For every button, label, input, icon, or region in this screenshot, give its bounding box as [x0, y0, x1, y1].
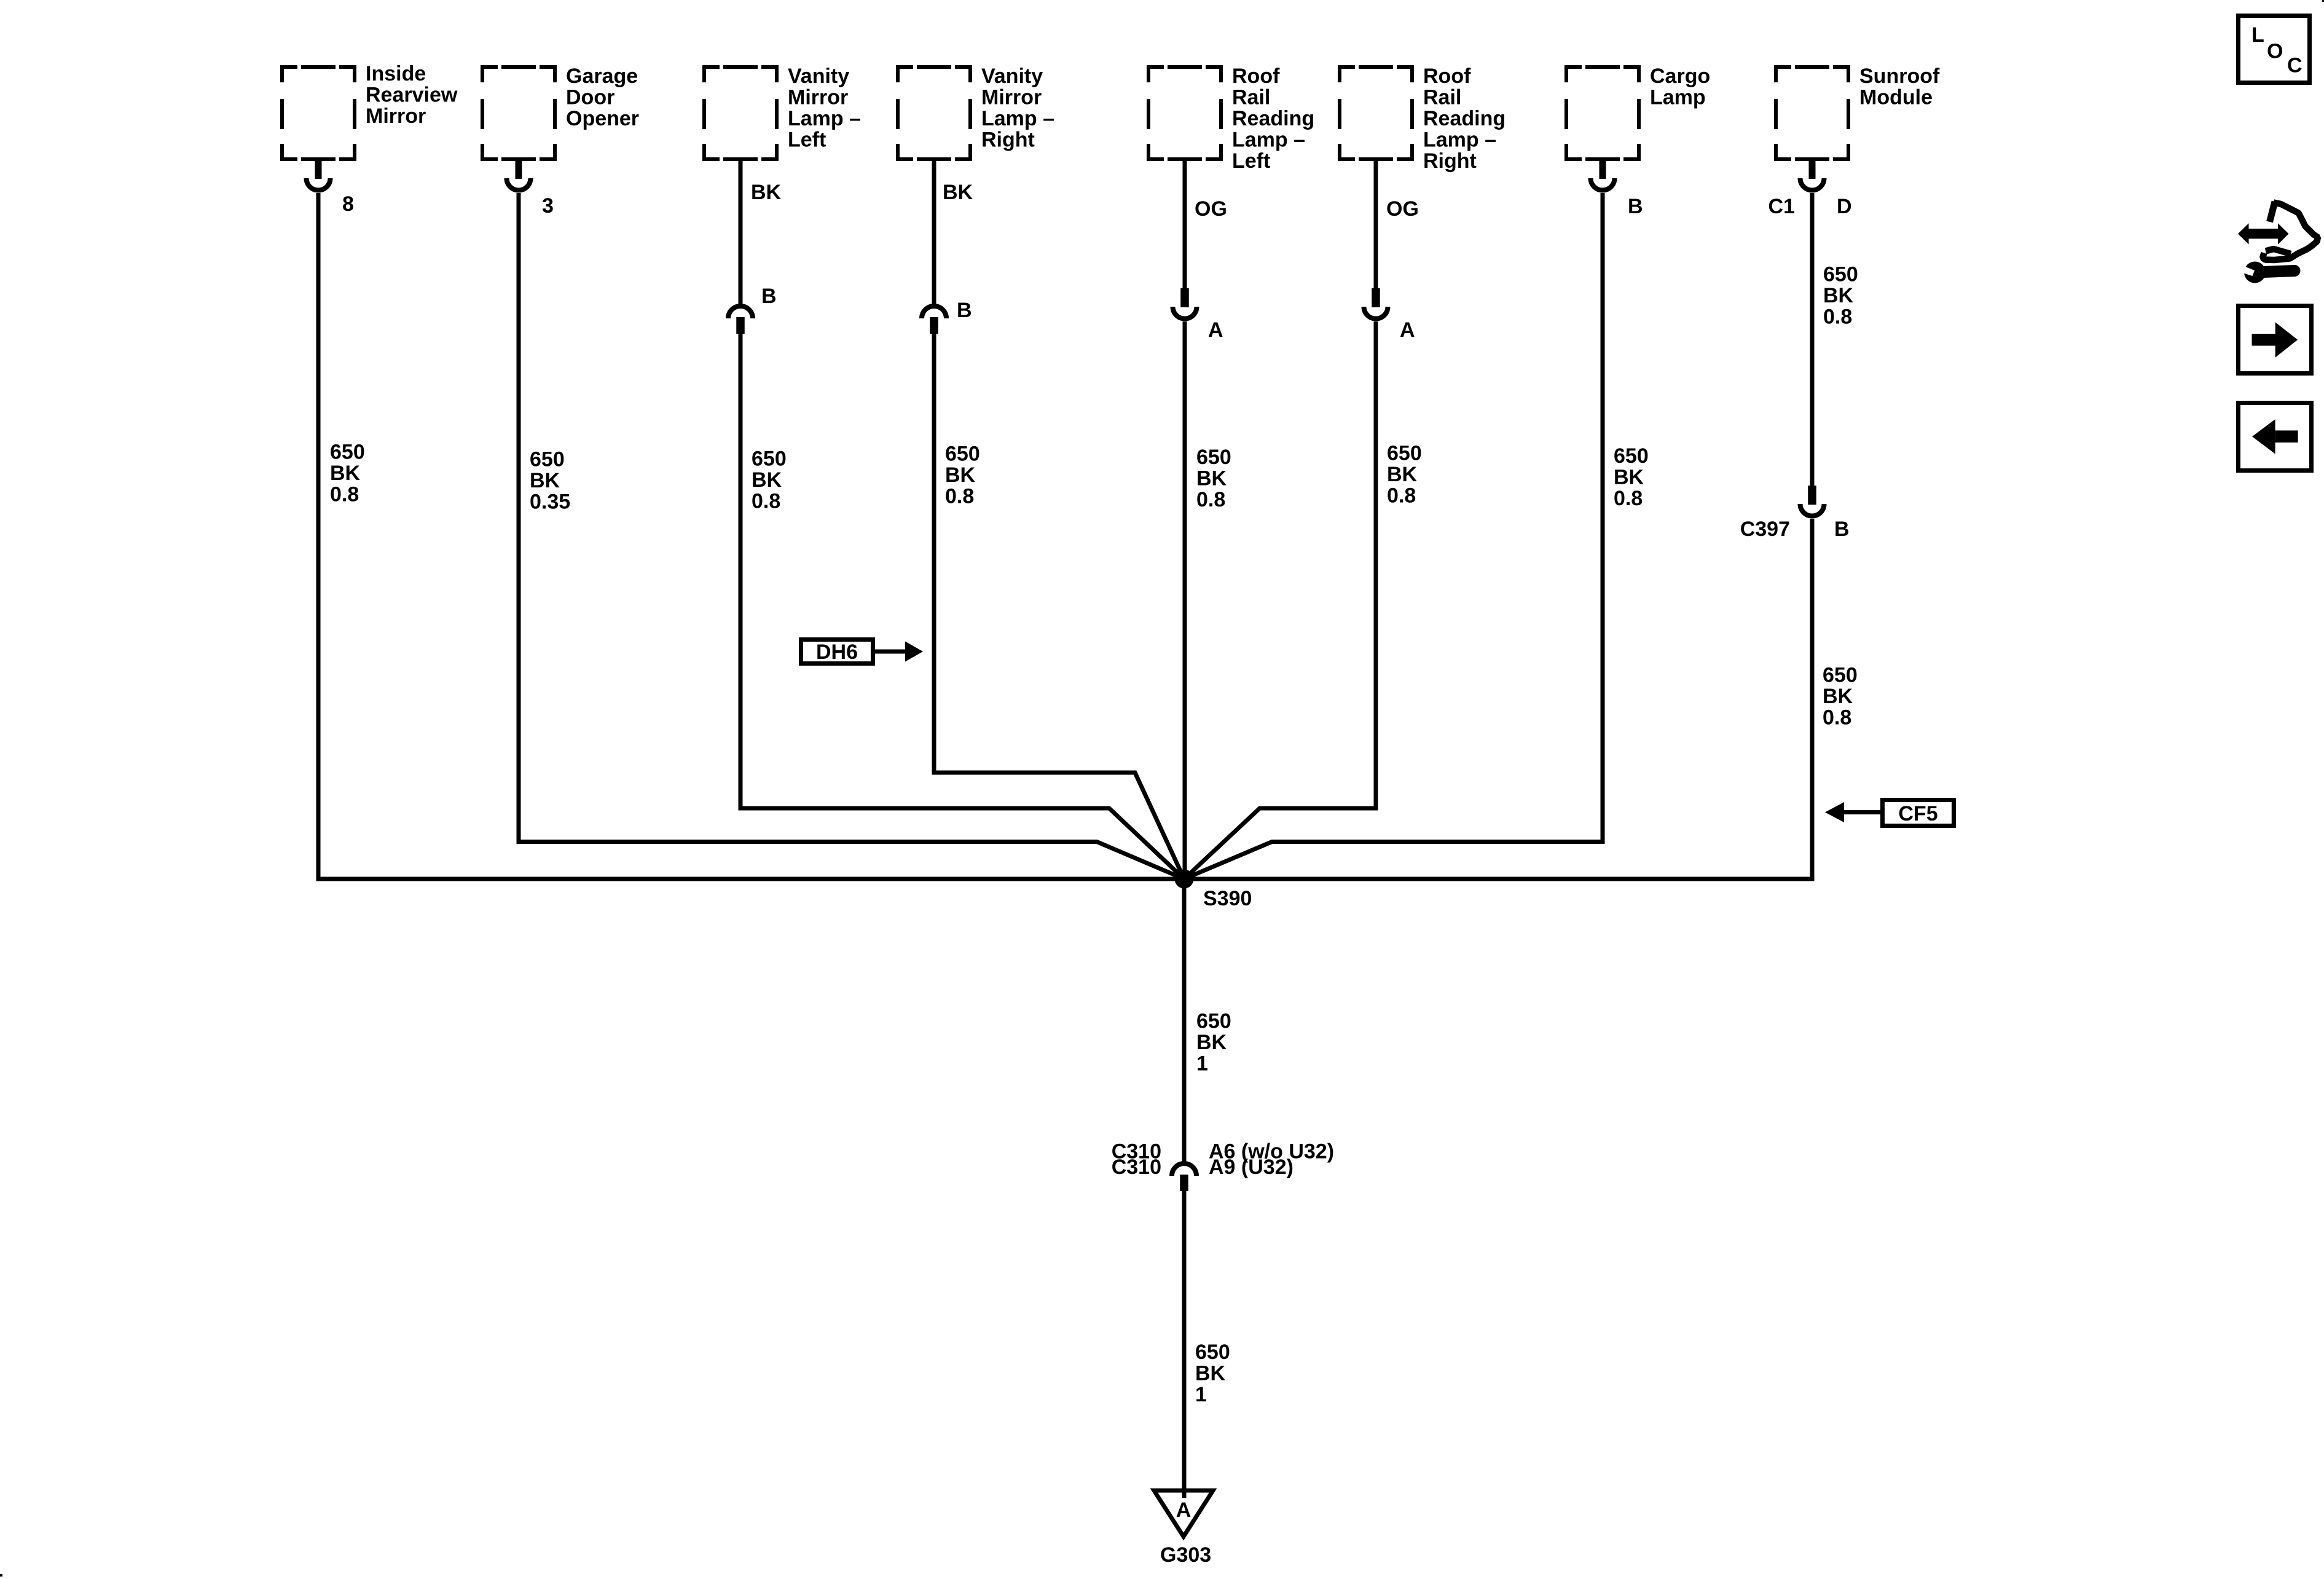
forward navigation icon: [2239, 306, 2312, 374]
svg-text:Vanity: Vanity: [788, 65, 849, 88]
svg-text:BK: BK: [1614, 466, 1644, 489]
svg-text:BK: BK: [945, 463, 976, 487]
svg-text:Lamp –: Lamp –: [981, 107, 1054, 130]
svg-text:B: B: [1834, 518, 1850, 541]
svg-text:A: A: [1176, 1498, 1191, 1522]
svg-text:650: 650: [752, 447, 787, 471]
svg-text:Vanity: Vanity: [981, 65, 1043, 88]
svg-text:650: 650: [1196, 446, 1231, 469]
in-line connector pin A Roof Rail Reading Lamp Right: [1364, 288, 1388, 319]
page mark top right: [2322, 0, 2324, 2]
component box Roof Rail Reading Lamp Left: [1147, 65, 1223, 161]
wire 650 BK 1 to ground: [1182, 1191, 1187, 1498]
wire sunroof lower with corner: [1184, 519, 1812, 879]
svg-text:650: 650: [1823, 263, 1858, 286]
svg-text:DH6: DH6: [816, 640, 858, 664]
svg-text:Lamp: Lamp: [1650, 86, 1706, 109]
svg-text:Right: Right: [981, 128, 1035, 152]
component box Garage Door Opener: [481, 65, 557, 161]
svg-text:BK: BK: [1387, 463, 1418, 486]
svg-text:A: A: [1400, 318, 1415, 342]
svg-text:0.8: 0.8: [1614, 487, 1643, 510]
svg-text:D: D: [1837, 195, 1852, 218]
harness icon jaw stroke: [2266, 249, 2291, 254]
svg-text:CF5: CF5: [1898, 802, 1937, 825]
wire 650 BK roof right to splice: [1184, 321, 1376, 879]
svg-text:C310: C310: [1112, 1156, 1161, 1179]
wire OG from Roof Rail Reading Lamp Left upper: [1183, 161, 1187, 289]
svg-text:650: 650: [1195, 1341, 1230, 1364]
svg-text:BK: BK: [751, 181, 782, 204]
svg-text:C: C: [2287, 54, 2302, 77]
wire 650 BK vanity right to splice: [934, 334, 1184, 879]
svg-text:C1: C1: [1769, 195, 1795, 218]
svg-text:S390: S390: [1203, 887, 1252, 910]
svg-text:Lamp –: Lamp –: [1423, 128, 1496, 152]
svg-text:BK: BK: [752, 468, 782, 492]
svg-text:B: B: [761, 285, 777, 308]
svg-text:Mirror: Mirror: [366, 104, 426, 128]
connector pin 8 Inside Rearview Mirror: [307, 157, 331, 191]
svg-text:Roof: Roof: [1423, 65, 1471, 88]
reference tag CF5: [1883, 800, 1954, 826]
svg-text:A: A: [1208, 318, 1223, 342]
svg-text:B: B: [957, 299, 972, 322]
wire 650 BK vanity left to splice: [740, 334, 1184, 879]
wire OG from Roof Rail Reading Lamp Right upper: [1374, 161, 1378, 289]
component box Inside Rearview Mirror: [280, 65, 356, 161]
svg-text:OG: OG: [1386, 197, 1419, 221]
svg-text:3: 3: [542, 194, 554, 218]
svg-text:Inside: Inside: [366, 62, 426, 85]
svg-text:Lamp –: Lamp –: [788, 107, 861, 130]
connector pin B Cargo Lamp: [1591, 157, 1615, 191]
svg-text:Garage: Garage: [566, 65, 638, 88]
in-line connector C397 pin B sunroof: [1800, 486, 1824, 516]
svg-text:650: 650: [1614, 444, 1649, 468]
svg-text:0.8: 0.8: [1387, 484, 1416, 508]
svg-text:G303: G303: [1160, 1543, 1211, 1567]
svg-text:Reading: Reading: [1232, 107, 1314, 130]
svg-text:650: 650: [330, 441, 365, 464]
svg-text:BK: BK: [330, 462, 361, 485]
in-line connector pin B Vanity Mirror Lamp Right: [922, 306, 946, 334]
svg-text:Left: Left: [1232, 149, 1270, 173]
connector C1 pin D Sunroof Module: [1800, 157, 1824, 191]
svg-text:650: 650: [945, 443, 980, 466]
wire 650 BK 1 splice to C310: [1182, 879, 1187, 1163]
svg-text:Rail: Rail: [1423, 86, 1461, 109]
svg-text:Lamp –: Lamp –: [1232, 128, 1305, 152]
svg-text:Module: Module: [1859, 86, 1933, 109]
svg-text:1: 1: [1195, 1383, 1207, 1406]
svg-text:C397: C397: [1740, 518, 1790, 541]
in-line connector pin B Vanity Mirror Lamp Left: [728, 306, 753, 334]
svg-text:O: O: [2267, 40, 2283, 63]
svg-text:0.8: 0.8: [1823, 706, 1851, 730]
svg-text:BK: BK: [1196, 467, 1227, 490]
wire 650 BK from Garage Door Opener to splice: [519, 193, 1184, 879]
svg-text:0.8: 0.8: [945, 485, 974, 508]
svg-text:BK: BK: [1196, 1031, 1227, 1054]
component box Roof Rail Reading Lamp Right: [1338, 65, 1414, 161]
svg-text:L: L: [2251, 23, 2264, 47]
arrow from DH6: [875, 650, 906, 654]
harness icon double arrow: [2238, 223, 2289, 244]
component box Vanity Mirror Lamp Left: [702, 65, 779, 161]
svg-text:650: 650: [1387, 442, 1422, 465]
component box Sunroof Module: [1774, 65, 1850, 161]
svg-text:OG: OG: [1195, 197, 1227, 221]
svg-text:Rearview: Rearview: [366, 84, 458, 107]
wire 650 BK cargo to splice: [1184, 193, 1603, 879]
back navigation icon: [2239, 403, 2312, 471]
wire 650 BK from Inside Rearview Mirror to splice: [318, 193, 1184, 879]
svg-text:Right: Right: [1423, 149, 1477, 173]
svg-text:A9 (U32): A9 (U32): [1209, 1156, 1294, 1179]
svg-text:BK: BK: [1823, 284, 1854, 307]
svg-text:Roof: Roof: [1232, 65, 1280, 88]
harness icon wrench: [2240, 262, 2295, 283]
svg-text:0.8: 0.8: [752, 490, 780, 513]
svg-text:650: 650: [530, 448, 565, 471]
svg-text:Door: Door: [566, 86, 614, 109]
svg-text:Opener: Opener: [566, 107, 639, 130]
wire BK from Vanity Mirror Lamp Right upper: [932, 161, 936, 305]
svg-text:0.35: 0.35: [530, 490, 570, 514]
svg-text:B: B: [1628, 195, 1643, 218]
harness routing icon outline: [2270, 202, 2275, 222]
svg-text:BK: BK: [943, 181, 973, 204]
connector pin 3 Garage Door Opener: [507, 157, 531, 191]
svg-text:1: 1: [1196, 1052, 1208, 1076]
svg-text:0.8: 0.8: [1196, 488, 1225, 511]
reference tag DH6: [801, 640, 873, 664]
svg-text:Rail: Rail: [1232, 86, 1270, 109]
svg-text:650: 650: [1196, 1010, 1231, 1033]
LOC icon box: [2239, 16, 2310, 83]
svg-text:0.8: 0.8: [330, 483, 359, 506]
svg-text:0.8: 0.8: [1823, 305, 1852, 329]
arrow to CF5 wire: [1844, 810, 1880, 814]
svg-text:BK: BK: [1823, 685, 1853, 708]
svg-text:Cargo: Cargo: [1650, 65, 1710, 88]
wire 650 BK sunroof upper: [1810, 193, 1815, 486]
wire 650 BK roof left vertical to splice: [1183, 321, 1187, 879]
in-line connector pin A Roof Rail Reading Lamp Left: [1173, 288, 1197, 319]
ground G303 triangle: [1154, 1490, 1213, 1537]
svg-text:Sunroof: Sunroof: [1859, 65, 1940, 88]
splice S390: [1175, 870, 1194, 889]
wire BK from Vanity Mirror Lamp Left upper: [739, 161, 743, 305]
component box Vanity Mirror Lamp Right: [896, 65, 972, 161]
page mark: [0, 1574, 2, 1577]
in-line connector C310: [1172, 1164, 1196, 1191]
component box Cargo Lamp: [1564, 65, 1641, 161]
svg-text:BK: BK: [1195, 1362, 1226, 1385]
svg-text:8: 8: [342, 192, 354, 216]
svg-text:Mirror: Mirror: [788, 86, 848, 109]
svg-text:Reading: Reading: [1423, 107, 1505, 130]
svg-text:650: 650: [1823, 664, 1858, 687]
svg-text:Left: Left: [788, 128, 826, 152]
svg-text:Mirror: Mirror: [981, 86, 1042, 109]
svg-text:BK: BK: [530, 469, 560, 492]
